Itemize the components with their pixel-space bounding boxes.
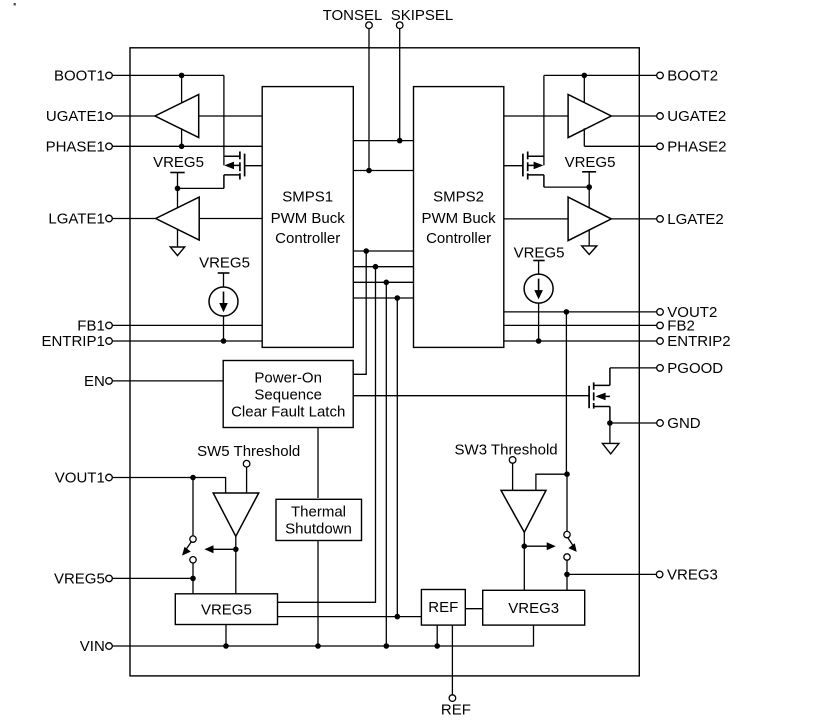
IC outer border [130, 48, 639, 676]
node VREG5/LGATE2 junction [586, 184, 592, 190]
pin VIN [80, 638, 113, 655]
power VREG5 supply (current source I1) [199, 255, 250, 287]
svg-text:PWM Buck: PWM Buck [271, 210, 346, 227]
svg-text:Sequence: Sequence [254, 386, 322, 403]
node TONSEL junction [366, 168, 372, 174]
svg-text:LGATE2: LGATE2 [667, 211, 723, 228]
wire VREG3 pin [567, 573, 656, 575]
switch SW3 (VOUT2/VREG3 select) [564, 474, 577, 590]
svg-text:VREG3: VREG3 [508, 600, 559, 617]
power VREG5 supply (current source I2) [514, 245, 565, 275]
svg-text:PGOOD: PGOOD [667, 360, 723, 377]
wire VOUT1 [112, 478, 225, 494]
svg-text:ENTRIP2: ENTRIP2 [667, 333, 730, 350]
svg-text:FB1: FB1 [77, 318, 105, 335]
pin UGATE2 [657, 108, 727, 125]
node VREG5/VIN junction [223, 643, 229, 649]
power VREG5 supply (LGATE2 driver) [565, 154, 616, 187]
wire EN [112, 380, 223, 382]
wire BOOT1 [112, 74, 224, 76]
wire VREG5 to LGATE1 driver top [177, 188, 179, 208]
wire BOOT2 down to bootstrap FET drain [543, 75, 545, 165]
switch SW5 (VOUT1/VREG5 select) [182, 480, 196, 594]
node bus3/VIN junction [384, 643, 390, 649]
node BOOT2 junction [582, 73, 588, 79]
svg-text:VREG5: VREG5 [565, 154, 616, 171]
op-amp UGATE2 driver [568, 95, 611, 138]
wire VREG5 pin [112, 577, 193, 579]
node VREG5 pin junction [190, 576, 196, 582]
node SW3 input junction [564, 471, 570, 477]
wire bus line 4 SMPS1-SMPS2 (REF rail) [353, 297, 413, 299]
svg-text:VREG5: VREG5 [201, 602, 252, 619]
ground LGATE2 driver [582, 229, 597, 254]
node bus1 junction [363, 248, 369, 254]
wire thermal shutdown to VIN rail [317, 541, 319, 646]
wire VIN rail [112, 625, 533, 646]
wire TONSEL vertical [368, 29, 370, 171]
svg-text:PHASE2: PHASE2 [667, 139, 726, 156]
VREG3 regulator block [483, 590, 585, 625]
wire bus line 1 SMPS1-SMPS2 [353, 250, 413, 252]
REF block [421, 590, 465, 626]
pin FB2 [657, 318, 695, 335]
wire PGOOD [610, 367, 657, 369]
wire PGOOD gate line from Power-On block [353, 395, 589, 397]
svg-text:UGATE1: UGATE1 [46, 108, 105, 125]
node BOOT1 junction [179, 73, 185, 79]
svg-text:BOOT1: BOOT1 [54, 68, 105, 85]
wire Q1 source to VREG5 rail [178, 187, 224, 189]
node PHASE1 junction [179, 144, 185, 150]
wire FB1 [112, 324, 262, 326]
pin VREG5 [54, 571, 112, 588]
wire bus2 vertical to VREG5 block [278, 267, 376, 603]
svg-text:Power-On: Power-On [254, 369, 322, 386]
svg-text:GND: GND [667, 415, 701, 432]
node thermal/VIN junction [315, 643, 321, 649]
node GND junction [607, 420, 613, 426]
wire BOOT1 down to bootstrap FET drain [223, 75, 225, 165]
op-amp UGATE1 driver [155, 95, 199, 138]
wire bus4 vertical to REF rail [396, 298, 398, 617]
current source I2 [524, 274, 553, 341]
current source I1 [209, 287, 238, 341]
op-amp LGATE1 driver [156, 197, 200, 240]
wire BOOT2 to UGATE2 driver top [583, 75, 585, 103]
node bus4/REF junction [395, 614, 401, 620]
wire bus3 vertical to VIN rail [385, 282, 387, 646]
wire bus line 3 SMPS1-SMPS2 (VIN rail) [353, 281, 413, 283]
Thermal Shutdown block [276, 499, 362, 540]
node ENTRIP2 junction [536, 338, 542, 344]
svg-text:EN: EN [84, 373, 105, 390]
wire SW3 comparator output [523, 532, 525, 590]
node SW5 output junction [233, 547, 239, 553]
ground symbol below Q3 [602, 423, 619, 454]
pin BOOT2 [657, 68, 718, 85]
svg-text:VREG5: VREG5 [514, 245, 565, 262]
SMPS2 block U2 [414, 87, 504, 348]
wire PHASE1 to UGATE1 driver bottom [181, 128, 183, 146]
svg-text:BOOT2: BOOT2 [667, 68, 718, 85]
svg-text:LGATE1: LGATE1 [48, 211, 104, 228]
op-amp LGATE2 driver [568, 197, 611, 241]
svg-text:SMPS2: SMPS2 [433, 189, 484, 206]
wire UGATE1 output [112, 115, 155, 117]
node VOUT2 junction [564, 309, 570, 315]
wire UGATE1 driver input from SMPS1 [199, 115, 263, 117]
svg-text:VREG5: VREG5 [54, 571, 105, 588]
wire Q1 gate from SMPS1 [245, 165, 263, 167]
node REF/VIN junction [434, 643, 440, 649]
wire FB2 [504, 324, 657, 326]
pin SKIPSEL [391, 7, 454, 29]
transistor Q1 bootstrap switch [224, 152, 245, 189]
node SW3 output junction [522, 543, 528, 549]
pin LGATE1 [48, 211, 112, 228]
pin SW5 Threshold [197, 443, 300, 467]
wire VREG5 to LGATE2 driver top [588, 187, 590, 208]
pin PHASE2 [657, 139, 727, 156]
svg-text:REF: REF [441, 702, 471, 719]
svg-text:ENTRIP1: ENTRIP1 [41, 333, 104, 350]
svg-text:Controller: Controller [275, 230, 340, 247]
pin UGATE1 [46, 108, 112, 125]
svg-text:SW3 Threshold: SW3 Threshold [455, 442, 558, 459]
transistor Q3 PGOOD open-drain [589, 368, 610, 423]
pin VOUT2 [657, 304, 718, 321]
pin FB1 [77, 318, 112, 335]
pin REF [441, 695, 471, 719]
wire SW5 control arrow [204, 545, 235, 553]
wire BOOT2 [544, 74, 657, 76]
op-amp SW5 comparator [213, 493, 259, 536]
pin GND [657, 415, 701, 432]
wire TONSEL interconnect SMPS1-SMPS2 [353, 170, 413, 172]
pin PHASE1 [46, 139, 113, 156]
pin EN [84, 373, 112, 390]
node VREG5/LGATE1 junction [175, 186, 181, 192]
svg-text:FB2: FB2 [667, 318, 695, 335]
pin ENTRIP1 [41, 333, 112, 350]
svg-text:Thermal: Thermal [291, 504, 346, 521]
VREG5 regulator block [175, 594, 277, 625]
wire SW3 threshold input [512, 463, 514, 490]
svg-text:VREG3: VREG3 [667, 567, 718, 584]
wire GND [610, 422, 657, 424]
svg-text:VREG5: VREG5 [199, 255, 250, 272]
wire REF block bottom to VIN rail [436, 625, 438, 646]
pin SW3 Threshold [455, 442, 558, 464]
svg-text:VIN: VIN [80, 638, 105, 655]
node SKIPSEL junction [397, 138, 403, 144]
wire Q2 source to VREG5 rail [544, 186, 589, 188]
wire LGATE2 driver input from SMPS2 [504, 218, 568, 220]
wire ENTRIP1 [112, 340, 262, 342]
pin VREG3 [656, 567, 718, 584]
wire UGATE2 output [611, 115, 656, 117]
transistor Q2 bootstrap switch [523, 152, 544, 188]
svg-text:REF: REF [428, 599, 458, 616]
ground LGATE1 driver [170, 229, 184, 256]
node bus3 junction [384, 280, 390, 286]
node ENTRIP1 junction [221, 338, 227, 344]
wire SKIPSEL interconnect SMPS1-SMPS2 [353, 140, 413, 142]
wire VREG5 block to REF block [278, 616, 422, 618]
svg-text:Shutdown: Shutdown [285, 521, 352, 538]
wire LGATE1 driver input from SMPS1 [199, 218, 262, 220]
op-amp SW3 comparator [501, 490, 546, 532]
wire SW5 threshold input [246, 467, 248, 493]
pin LGATE2 [657, 211, 724, 228]
wire REF block to VREG3 block [465, 608, 482, 610]
node bus2 junction [373, 264, 379, 270]
wire UGATE2 driver input from SMPS2 [504, 115, 568, 117]
pin VOUT1 [55, 470, 113, 487]
wire bus line 2 SMPS1-SMPS2 (VREG5 rail) [353, 266, 413, 268]
svg-text:TONSEL: TONSEL [323, 7, 383, 24]
wire SKIPSEL vertical [399, 29, 401, 141]
wire SW3 right input from VOUT2 [536, 474, 567, 490]
pin BOOT1 [54, 68, 112, 85]
wire VREG5 block bottom to VIN rail [225, 625, 227, 647]
svg-text:PWM Buck: PWM Buck [422, 210, 497, 227]
svg-text:Controller: Controller [426, 230, 491, 247]
svg-text:PHASE1: PHASE1 [46, 139, 105, 156]
wire Power-On block to thermal shutdown [317, 428, 319, 499]
wire VOUT2 sense vertical [565, 312, 567, 474]
wire bus1 vertical to Power-On block [353, 251, 366, 374]
svg-text:VREG5: VREG5 [153, 154, 204, 171]
wire SW5 comparator output [235, 536, 237, 594]
wire REF output [451, 625, 453, 695]
pin ENTRIP2 [657, 333, 731, 350]
svg-text:SW5 Threshold: SW5 Threshold [197, 443, 300, 460]
node VREG3 pin junction [564, 572, 570, 578]
Power-On Sequence Clear Fault Latch block [223, 361, 353, 428]
wire Q2 gate from SMPS2 [504, 165, 523, 167]
wire BOOT1 to UGATE1 driver top [181, 75, 183, 103]
node bus4 junction [395, 295, 401, 301]
SMPS1 block U1 [262, 87, 353, 348]
wire LGATE1 output [112, 218, 155, 220]
svg-text:UGATE2: UGATE2 [667, 108, 726, 125]
wire ENTRIP2 [504, 340, 657, 342]
wire PHASE2 [584, 145, 656, 147]
svg-text:Clear Fault Latch: Clear Fault Latch [231, 404, 345, 421]
wire VOUT2 [504, 311, 657, 313]
power VREG5 supply (LGATE1 driver) [153, 154, 204, 189]
pin TONSEL [323, 7, 383, 29]
svg-text:VOUT1: VOUT1 [55, 470, 105, 487]
wire PHASE2 to UGATE2 driver bottom [583, 128, 585, 146]
wire PHASE1 [112, 145, 262, 147]
node VOUT1 junction [190, 475, 196, 481]
svg-text:SMPS1: SMPS1 [282, 189, 333, 206]
wire SW3 control arrow [524, 542, 556, 550]
pin PGOOD [657, 360, 724, 377]
wire LGATE2 output [611, 218, 656, 220]
